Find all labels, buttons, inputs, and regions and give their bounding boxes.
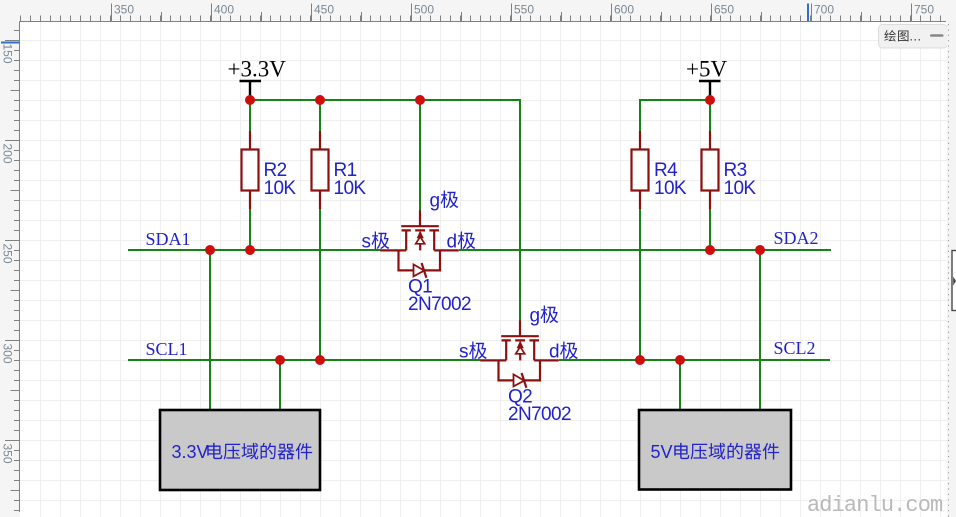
label Q2 gate — [530, 306, 559, 327]
wire SCL1 to 3.3V box — [279, 360, 281, 410]
wire R1 top lead — [319, 99, 321, 131]
wire +5V rail — [640, 100, 710, 131]
svg-text:2N7002: 2N7002 — [508, 404, 571, 425]
junction (420,100) — [415, 95, 425, 105]
wire R2 bottom to SDA1 — [249, 209, 251, 250]
label Q1 gate — [430, 191, 459, 212]
junction (680,360) — [675, 355, 685, 365]
svg-text:250: 250 — [1, 244, 15, 264]
transistor Q1 — [380, 210, 459, 277]
svg-text:500: 500 — [414, 3, 434, 17]
svg-text:SCL2: SCL2 — [774, 338, 816, 358]
junction (320,360) — [315, 355, 325, 365]
wire R4 bottom to SCL2 — [639, 208, 641, 360]
wire SCL2 to 5V box — [679, 360, 681, 410]
junction (710,100) — [705, 95, 715, 105]
svg-text:450: 450 — [314, 3, 334, 17]
svg-text:10K: 10K — [264, 178, 297, 199]
wire R3 bottom to SDA2 — [709, 208, 711, 250]
resistor R1 — [312, 131, 329, 209]
toolbar button 绘图 — [879, 25, 948, 49]
junction (210,250) — [205, 245, 215, 255]
wire R3 top lead — [709, 99, 711, 131]
svg-text:SDA1: SDA1 — [146, 229, 191, 249]
wire +3.3V top rail to Q2 gate — [250, 100, 520, 323]
transistor Q2 — [480, 320, 559, 387]
wire SDA1 to 3.3V box — [209, 250, 211, 410]
svg-text:10K: 10K — [654, 178, 687, 199]
block 5V domain device — [639, 410, 791, 490]
wire R2 top lead — [249, 99, 251, 131]
svg-text:150: 150 — [1, 44, 15, 64]
label Q1 drain — [447, 232, 476, 253]
svg-text:550: 550 — [514, 3, 534, 17]
svg-text:adianlu.com: adianlu.com — [807, 493, 943, 517]
svg-text:...: ... — [910, 30, 922, 44]
wire SDA2 — [459, 249, 831, 251]
wire Q1 gate — [419, 99, 421, 212]
wire SCL1 — [128, 359, 481, 361]
svg-text:300: 300 — [1, 344, 15, 364]
svg-text:700: 700 — [814, 3, 834, 17]
wire SDA1 — [128, 249, 381, 251]
svg-text:d: d — [549, 342, 560, 363]
svg-text:s: s — [362, 232, 372, 253]
svg-text:200: 200 — [1, 144, 15, 164]
label Q2 source — [459, 342, 487, 363]
resistor R4 — [632, 131, 649, 209]
svg-text:650: 650 — [714, 3, 734, 17]
junction (760,250) — [755, 245, 765, 255]
wire SCL2 — [559, 359, 830, 361]
svg-text:350: 350 — [114, 3, 134, 17]
svg-text:d: d — [447, 232, 458, 253]
svg-text:10K: 10K — [724, 178, 757, 199]
resistor R3 — [702, 131, 719, 209]
block 3.3V domain device — [160, 410, 320, 490]
svg-text:750: 750 — [914, 3, 934, 17]
junction (640,360) — [635, 355, 645, 365]
svg-text:10K: 10K — [334, 178, 367, 199]
junction (280,360) — [275, 355, 285, 365]
resistor R2 — [242, 131, 259, 209]
wire R1 bottom to SCL1 — [319, 209, 321, 360]
label Q1 source — [362, 232, 390, 253]
junction (320,100) — [315, 95, 325, 105]
svg-text:+3.3V: +3.3V — [228, 57, 287, 82]
svg-text:600: 600 — [614, 3, 634, 17]
svg-text:g: g — [430, 191, 441, 212]
svg-text:2N7002: 2N7002 — [408, 294, 471, 315]
power +5V — [699, 81, 721, 97]
svg-text:400: 400 — [214, 3, 234, 17]
junction (710,250) — [705, 245, 715, 255]
svg-text:350: 350 — [1, 444, 15, 464]
junction (250,250) — [245, 245, 255, 255]
svg-text:s: s — [459, 342, 469, 363]
label Q2 drain — [549, 342, 578, 363]
power +3.3V — [240, 81, 262, 97]
svg-text:SCL1: SCL1 — [146, 339, 188, 359]
scrollbar — [947, 22, 956, 517]
junction (250,100) — [245, 95, 255, 105]
svg-text:+5V: +5V — [686, 57, 727, 82]
wire SDA2 to 5V box — [759, 250, 761, 410]
svg-text:5V: 5V — [651, 442, 673, 462]
svg-text:g: g — [530, 306, 541, 327]
svg-text:3.3V: 3.3V — [172, 442, 209, 462]
svg-text:SDA2: SDA2 — [774, 228, 819, 248]
